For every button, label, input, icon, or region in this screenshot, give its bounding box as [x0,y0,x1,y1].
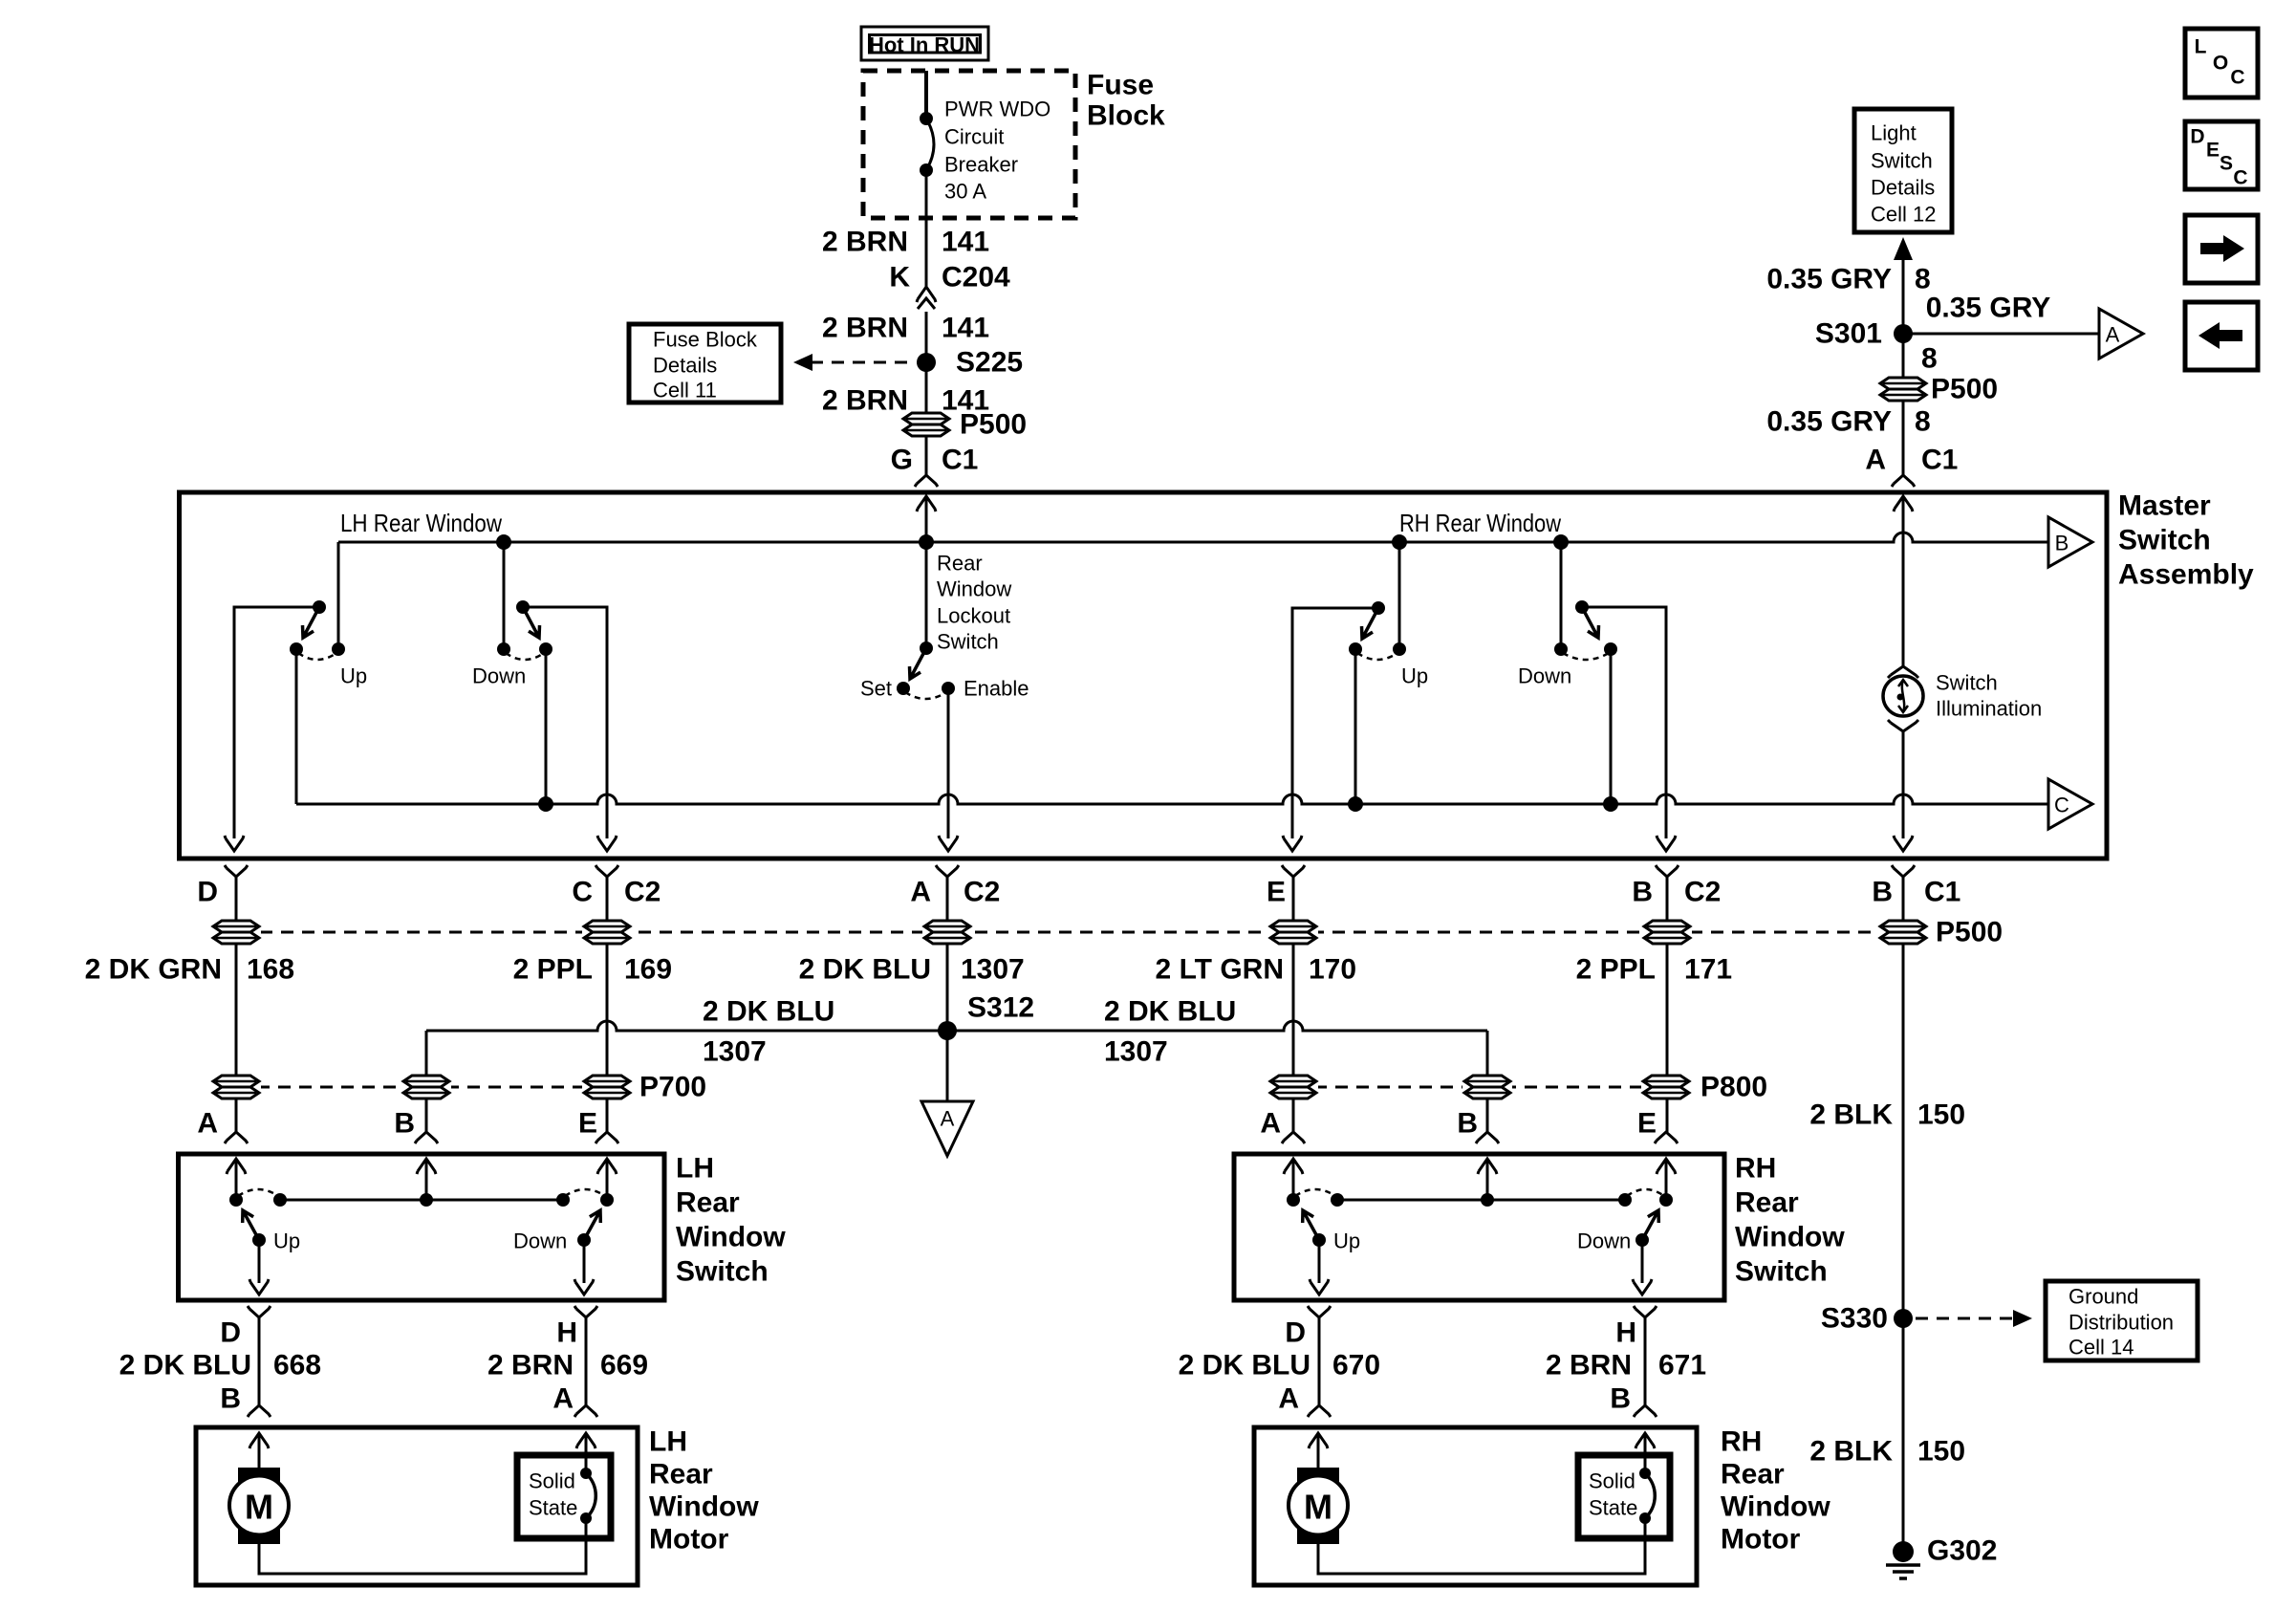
svg-text:D: D [220,1317,241,1349]
RH Up switch pivot and pin E lead [1372,601,1385,615]
icon box arrow right [2185,215,2258,283]
svg-text:Details: Details [653,354,717,378]
connector half above lamp [1888,666,1918,678]
svg-text:C2: C2 [1684,877,1721,908]
icon box DESC [2185,121,2258,189]
connector P800 dashed row [1293,1086,1666,1089]
LH motor entry arrow A [576,1433,596,1448]
svg-text:0.35 GRY: 0.35 GRY [1766,264,1892,295]
svg-text:Switch: Switch [1936,671,1998,695]
LH switch Down arm [577,1233,591,1247]
connector P800 at RH pin A [1268,1075,1318,1099]
svg-text:Down: Down [472,664,526,688]
off-page triangle C [2048,779,2092,829]
svg-text:C204: C204 [942,262,1010,294]
svg-text:2 BRN: 2 BRN [822,385,908,417]
wire breaker to connector C204 [925,170,928,289]
LH switch contact dots [229,1193,243,1207]
LH switch Up arm [252,1233,266,1247]
svg-text:A: A [910,877,931,908]
svg-text:Cell 14: Cell 14 [2069,1336,2134,1360]
svg-text:Solid: Solid [529,1469,575,1493]
svg-text:Down: Down [1518,664,1571,688]
svg-text:D: D [197,877,218,908]
svg-text:RH Rear Window: RH Rear Window [1399,509,1561,537]
RH switch Up arm [1312,1233,1326,1247]
power source label "Hot In RUN" [861,27,988,60]
svg-text:L: L [2195,36,2207,58]
svg-text:2 DK BLU: 2 DK BLU [799,954,931,986]
icon box arrow left [2185,302,2258,370]
RH Up switch moving contact [1349,642,1362,656]
lockout switch arm [910,648,927,679]
LH pin H wire to motor [574,1306,597,1317]
RH pin H wire to motor [1634,1306,1657,1317]
svg-text:Motor: Motor [1721,1524,1801,1556]
svg-text:E: E [1637,1108,1657,1140]
svg-text:B: B [394,1108,415,1140]
svg-text:170: 170 [1309,954,1356,986]
svg-text:Rear: Rear [676,1187,740,1219]
svg-text:S: S [2220,153,2233,175]
svg-text:Circuit: Circuit [944,125,1004,149]
lockout Enable contact [942,682,955,695]
svg-text:2 BRN: 2 BRN [1546,1350,1632,1382]
splice S330 [1894,1309,1913,1328]
svg-text:2 BLK: 2 BLK [1809,1099,1893,1131]
wire S225 to P500 [925,362,928,475]
S312 left branch wire to LH switch pin B [425,1031,428,1132]
LH Up switch moving contact [290,642,303,656]
svg-text:State: State [529,1496,577,1520]
connector half above master box (A C1) [1892,475,1915,487]
connector P800 at RH pin B [1462,1075,1512,1099]
icon box LOC [2185,29,2258,98]
RH motor entry arrow B [1635,1433,1655,1448]
pin E wire below master box [1282,865,1305,877]
LH Up switch throw arc [298,653,336,660]
svg-text:Rear: Rear [1735,1187,1799,1219]
connector half above master box (G C1) [915,475,938,487]
svg-text:30 A: 30 A [944,180,986,204]
RH switch left throw arc [1295,1189,1335,1196]
RH switch Down arm [1635,1233,1649,1247]
svg-text:PWR WDO: PWR WDO [944,98,1051,121]
reference box Fuse Block Details Cell 11 [629,324,781,402]
connector P500 at pin D [211,920,261,945]
RH solid state switch arc [1639,1468,1651,1479]
LH Down switch pivot and pin C lead [516,600,530,614]
svg-text:Motor: Motor [649,1524,729,1556]
LH rear window motor box [196,1427,638,1585]
svg-text:2 BRN: 2 BRN [487,1350,574,1382]
svg-text:LH Rear Window: LH Rear Window [340,509,502,537]
svg-text:1307: 1307 [961,954,1025,986]
svg-text:Light: Light [1871,121,1917,145]
LH Down switch fixed contact [503,542,506,649]
svg-text:Distribution: Distribution [2069,1311,2174,1335]
RH switch right throw arc [1627,1189,1664,1196]
svg-text:Switch: Switch [937,630,999,654]
svg-text:Cell 12: Cell 12 [1871,203,1936,227]
svg-text:Switch: Switch [2118,525,2211,556]
wire from Hot In RUN into breaker [924,71,928,119]
svg-text:2 DK BLU: 2 DK BLU [1179,1350,1310,1382]
svg-text:Rear: Rear [937,552,983,576]
lockout throw arc [905,692,946,699]
svg-text:H: H [556,1317,577,1349]
LH motor M symbol [238,1468,280,1484]
RH motor entry arrow A [1309,1433,1328,1448]
bus C (lower horizontal) [295,649,298,804]
svg-text:P800: P800 [1700,1072,1767,1103]
S312 right branch wire to RH switch pin B [1486,1031,1489,1132]
reference box Light Switch Details Cell 12 [1854,109,1952,232]
svg-text:2 DK BLU: 2 DK BLU [703,996,834,1028]
RH Up switch fixed contact [1398,542,1401,649]
splice S312 bus [426,1021,1487,1031]
svg-text:Up: Up [273,1229,300,1253]
junction dots on bus B [496,534,511,550]
connector P500 at pin E [1268,920,1318,945]
connector P500 (right pass-through) [1878,377,1928,402]
svg-text:Switch: Switch [676,1256,769,1288]
svg-text:Details: Details [1871,176,1935,200]
RH Down switch moving contact [1604,642,1617,656]
svg-text:State: State [1589,1496,1637,1520]
svg-text:2 DK BLU: 2 DK BLU [1104,996,1236,1028]
svg-text:C: C [2233,167,2247,189]
svg-text:2 DK GRN: 2 DK GRN [85,954,222,986]
svg-text:D: D [2190,126,2204,148]
connector P500 at pin A [922,920,972,945]
svg-text:0.35 GRY: 0.35 GRY [1766,406,1892,438]
svg-text:8: 8 [1921,343,1938,375]
LH Up switch arm [303,607,320,638]
wire S301 to P500 [1902,334,1905,475]
RH motor bottom wire [1318,1518,1645,1574]
svg-text:171: 171 [1684,954,1732,986]
connector P700 at LH pin B [401,1075,451,1099]
svg-text:668: 668 [273,1350,321,1382]
RH motor M symbol [1297,1468,1339,1484]
RH switch entry arrows [1284,1159,1303,1174]
svg-text:O: O [2213,53,2228,75]
svg-text:Hot In RUN: Hot In RUN [869,33,980,57]
svg-text:S301: S301 [1815,318,1882,350]
svg-text:Window: Window [937,577,1011,601]
svg-text:C: C [2054,794,2069,817]
connector P500 at pin B C2 [1642,920,1692,945]
svg-text:C: C [2230,67,2244,89]
svg-text:Master: Master [2118,490,2211,522]
svg-text:141: 141 [942,313,989,344]
svg-text:C2: C2 [964,877,1000,908]
wire C204 to S225 [925,312,928,362]
lockout switch feed wire [925,542,928,648]
RH rear window motor box [1254,1427,1697,1585]
svg-text:P700: P700 [639,1072,706,1103]
svg-text:2 BLK: 2 BLK [1809,1436,1893,1468]
svg-text:Switch: Switch [1735,1256,1828,1288]
svg-text:168: 168 [247,954,294,986]
lockout Enable lead to pin A [947,688,950,838]
svg-text:M: M [1304,1488,1332,1527]
wire S301 to triangle A [1903,333,2099,336]
svg-text:Up: Up [1401,664,1428,688]
illumination lead to pin B C1 [1902,731,1905,838]
svg-text:169: 169 [624,954,672,986]
connector P700 dashed row [236,1086,607,1089]
LH Down switch moving contact [539,642,552,656]
bus B (upper horizontal) [338,533,2048,542]
svg-text:A: A [2106,323,2120,347]
svg-text:P500: P500 [960,409,1027,441]
svg-text:1307: 1307 [1104,1036,1168,1068]
svg-text:Enable: Enable [964,677,1029,701]
pin B C1 ground wire below master box [1892,865,1915,877]
LH Up switch fixed contact [337,542,340,649]
svg-text:A: A [941,1107,955,1131]
LH switch pin H lead [583,1240,586,1283]
svg-text:2 PPL: 2 PPL [1576,954,1656,986]
svg-text:H: H [1615,1317,1636,1349]
svg-text:S312: S312 [967,992,1034,1024]
svg-text:K: K [889,262,910,294]
svg-text:B: B [220,1383,241,1415]
splice S301 [1894,324,1913,343]
splice S225 [917,353,936,372]
svg-text:B: B [1872,877,1893,908]
connector halves above RH switch [1282,1132,1305,1143]
svg-text:Rear: Rear [1721,1459,1785,1490]
RH switch contact dots [1287,1193,1300,1207]
svg-text:Illumination: Illumination [1936,697,2042,721]
svg-text:LH: LH [649,1426,687,1458]
pin C wire below master box [596,865,618,877]
svg-text:B: B [1610,1383,1631,1415]
svg-text:B: B [2055,532,2069,555]
connector half below lamp [1888,720,1918,731]
pin A wire below master box [936,865,959,877]
svg-text:S225: S225 [956,347,1023,379]
connector P500 at pin C [582,920,632,945]
svg-text:E: E [2206,140,2220,162]
svg-text:671: 671 [1658,1350,1706,1382]
svg-text:Switch: Switch [1871,149,1933,173]
svg-text:A: A [197,1108,218,1140]
svg-text:A: A [552,1383,574,1415]
LH pin D wire to motor [248,1306,271,1317]
svg-text:2 PPL: 2 PPL [513,954,593,986]
svg-text:A: A [1865,445,1886,476]
ground G302 [1893,1541,1914,1562]
svg-text:2 BRN: 2 BRN [822,227,908,258]
svg-text:2 LT GRN: 2 LT GRN [1156,954,1284,986]
dashed reference arrow to Fuse Block Details [811,361,914,364]
svg-text:2 BRN: 2 BRN [822,313,908,344]
LH switch right throw arc [565,1189,605,1196]
LH switch pin D lead [258,1240,261,1283]
LH Up switch pivot and pin D lead [313,600,326,614]
svg-text:Fuse: Fuse [1087,70,1154,101]
RH Up switch throw arc [1357,653,1397,660]
svg-text:G: G [891,445,913,476]
svg-text:Down: Down [513,1229,567,1253]
svg-text:670: 670 [1332,1350,1380,1382]
off-page triangle B [2048,517,2092,567]
svg-text:A: A [1278,1383,1299,1415]
svg-text:C1: C1 [942,445,978,476]
svg-text:P500: P500 [1936,917,2003,948]
connector P700 at LH pin A [211,1075,261,1099]
svg-text:Assembly: Assembly [2118,559,2254,591]
arrow up to Light Switch Details [1894,237,1913,260]
svg-text:1307: 1307 [703,1036,767,1068]
entry arrow from G C1 [917,496,936,511]
LH Down switch throw arc [506,653,544,660]
reference box Ground Distribution Cell 14 [2046,1281,2198,1360]
pin D wire below master box [225,865,248,877]
svg-text:B: B [1457,1108,1478,1140]
svg-text:C2: C2 [624,877,661,908]
svg-text:RH: RH [1735,1153,1776,1185]
svg-text:150: 150 [1917,1099,1965,1131]
splice S312 dot and label [938,1021,957,1040]
svg-text:141: 141 [942,227,989,258]
svg-text:Fuse Block: Fuse Block [653,328,758,352]
svg-text:Block: Block [1087,100,1165,132]
svg-text:0.35 GRY: 0.35 GRY [1926,293,2051,324]
svg-text:Window: Window [1721,1491,1830,1523]
RH Down switch throw arc [1563,653,1609,660]
junction dots on bus C [538,796,553,812]
connector halves above LH switch [225,1132,248,1143]
LH Down switch arm [523,607,540,638]
off-page triangle A (down) [921,1101,973,1156]
wire S312 to off-page triangle A [946,1031,949,1101]
svg-text:Down: Down [1577,1229,1631,1253]
svg-text:Ground: Ground [2069,1285,2138,1309]
RH solid state box [1578,1455,1670,1538]
svg-text:G302: G302 [1927,1535,1997,1567]
svg-text:Up: Up [340,664,367,688]
svg-text:Set: Set [860,677,892,701]
lockout switch pivot [920,642,933,655]
LH switch left throw arc [238,1189,278,1196]
pin B wire below master box [1656,865,1679,877]
lockout Set contact [897,682,910,695]
circuit breaker PWR WDO 30 A [920,112,933,125]
svg-text:Window: Window [1735,1222,1845,1253]
LH rear window switch box [179,1154,665,1300]
switch illumination lamp [1883,676,1923,716]
LH solid state switch arc [580,1468,592,1479]
LH motor entry arrow B [249,1433,269,1448]
svg-text:2 DK BLU: 2 DK BLU [119,1350,251,1382]
RH switch contact bar [1337,1199,1625,1202]
svg-text:8: 8 [1915,406,1931,438]
svg-text:669: 669 [600,1350,648,1382]
svg-text:Window: Window [649,1491,759,1523]
RH Down switch fixed contact [1560,542,1563,649]
entry arrow from A C1 (illumination feed) [1894,496,1913,511]
svg-text:B: B [1632,877,1653,908]
svg-text:Window: Window [676,1222,786,1253]
svg-text:Breaker: Breaker [944,153,1018,177]
svg-text:150: 150 [1917,1436,1965,1468]
svg-text:LH: LH [676,1153,714,1185]
fuse block dashed box [863,71,1075,218]
svg-text:P500: P500 [1931,374,1998,405]
svg-text:S330: S330 [1821,1303,1888,1335]
svg-text:RH: RH [1721,1426,1762,1458]
RH pin D wire to motor [1308,1306,1331,1317]
RH rear window switch box [1234,1154,1724,1300]
svg-text:8: 8 [1915,264,1931,295]
connector P500 (center pass-through) [901,412,951,437]
off-page triangle A (right) [2099,309,2143,359]
svg-text:Rear: Rear [649,1459,713,1490]
svg-text:Cell 11: Cell 11 [653,379,717,402]
RH Up switch arm [1362,608,1379,639]
svg-text:C1: C1 [1921,445,1958,476]
svg-text:Up: Up [1333,1229,1360,1253]
master switch assembly box [180,492,2108,859]
svg-text:E: E [1267,877,1286,908]
LH solid state box [517,1455,611,1538]
svg-text:D: D [1285,1317,1306,1349]
svg-text:A: A [1260,1108,1281,1140]
svg-text:E: E [578,1108,597,1140]
connector P700 at LH pin E [582,1075,632,1099]
RH Down switch arm [1582,607,1599,638]
connector P800 at RH pin E [1641,1075,1691,1099]
svg-text:C1: C1 [1924,877,1960,908]
connector P500 dashed row [239,931,1921,934]
RH switch pin D lead [1318,1240,1321,1283]
RH switch pin H lead [1641,1240,1644,1283]
connector P500 at pin B C1 [1878,920,1928,945]
dashed reference arrow to Ground Distribution [1916,1317,2013,1320]
svg-text:M: M [245,1488,273,1527]
svg-text:C: C [572,877,593,908]
LH motor bottom wire [259,1518,586,1574]
svg-text:Lockout: Lockout [937,604,1010,628]
RH Down switch pivot and pin B lead [1575,600,1589,614]
svg-text:Solid: Solid [1589,1469,1635,1493]
LH switch entry arrows [227,1159,246,1174]
LH switch contact bar [280,1199,563,1202]
